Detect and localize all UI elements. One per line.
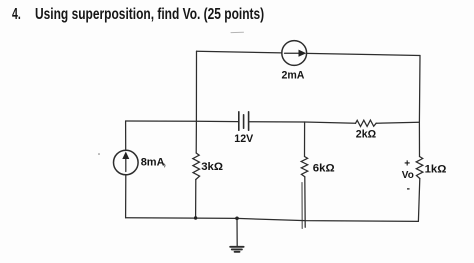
wire: middle horizontal left segment (8mA corner to battery) — [126, 120, 238, 123]
resistor R2 6kΩ (vertical) — [301, 157, 308, 177]
svg-text:2mA: 2mA — [282, 69, 305, 81]
svg-text:-: - — [407, 184, 410, 195]
wire: 1kΩ branch lower lead — [418, 179, 419, 222]
junction dot at 3kΩ bottom — [194, 216, 197, 219]
scan artifact: faint dash above battery area — [231, 31, 244, 33]
wire: 3kΩ branch lower lead — [195, 180, 197, 219]
title: problem statement — [12, 8, 21, 21]
svg-text:8mA: 8mA — [141, 157, 165, 169]
title text — [35, 8, 264, 21]
wire: left vertical (top corner down to middle wire) — [195, 51, 197, 121]
wire: 8mA branch upper lead — [125, 121, 127, 150]
resistor R4 1kΩ (vertical) — [416, 157, 423, 179]
wire: right vertical (top corner down to middle node) — [418, 56, 421, 123]
current source I2 8mA — [114, 150, 139, 175]
svg-text:2kΩ: 2kΩ — [356, 129, 377, 141]
wire: 3kΩ branch upper lead — [195, 121, 197, 153]
wire: 1kΩ branch upper lead — [418, 122, 420, 156]
wire: 6kΩ branch lower lead (extends past bottom wire) — [304, 177, 306, 227]
stray mark after 8mA — [164, 164, 166, 168]
wire: 8mA branch lower lead — [125, 175, 127, 218]
ground symbol — [230, 247, 243, 252]
svg-text:12V: 12V — [234, 133, 253, 145]
wire: middle horizontal right segment (2kΩ to right node) — [376, 121, 419, 124]
stray dot near 8mA — [98, 153, 100, 155]
scan artifact: doubled line beside 6kΩ lead — [301, 183, 303, 229]
wire: 6kΩ branch upper lead — [304, 122, 306, 157]
current source I1 2mA — [282, 41, 307, 66]
ground stem — [236, 218, 238, 246]
svg-text:3kΩ: 3kΩ — [201, 161, 223, 173]
wire: top left horizontal (to 2mA source) — [197, 51, 283, 53]
wire: bottom horizontal — [126, 218, 419, 222]
wire: middle horizontal center segment (battery to 2kΩ) — [250, 122, 356, 124]
resistor R3 2kΩ (horizontal) — [356, 120, 377, 126]
svg-text:Vo: Vo — [402, 170, 414, 181]
resistor R1 3kΩ (vertical) — [193, 153, 200, 180]
battery V1 12V — [239, 112, 249, 130]
junction dot at ground stem — [235, 217, 239, 221]
svg-text:6kΩ: 6kΩ — [313, 163, 335, 175]
svg-text:1kΩ: 1kΩ — [425, 164, 447, 176]
svg-text:+: + — [404, 159, 410, 170]
wire: top right horizontal (2mA source to right corner) — [307, 53, 421, 55]
